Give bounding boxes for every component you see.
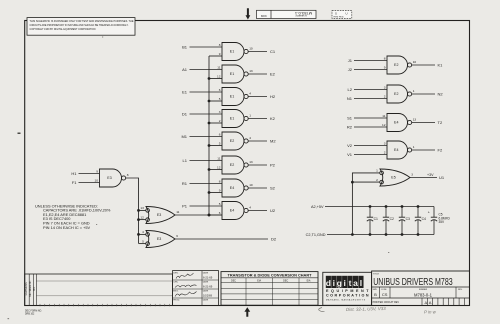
svg-text:4: 4 — [249, 136, 251, 140]
svg-text:PRINT PROD: PRINT PROD — [333, 16, 344, 18]
svg-text:4: 4 — [249, 206, 251, 210]
svg-text:DEC FORM NO.: DEC FORM NO. — [25, 310, 42, 312]
svg-text:A1: A1 — [182, 67, 188, 72]
svg-text:DRN.: DRN. — [173, 272, 179, 274]
svg-text:T2: T2 — [438, 120, 443, 125]
svg-text:M1: M1 — [181, 134, 187, 139]
svg-text:PIN 14 ON EACH IC = +5V: PIN 14 ON EACH IC = +5V — [43, 225, 91, 230]
svg-text:K1: K1 — [438, 62, 444, 67]
svg-text:EQUIPMENT: EQUIPMENT — [326, 289, 369, 293]
wire J2 input — [354, 69, 387, 71]
gate OR gate E3 upper — [146, 207, 175, 224]
svg-text:i: i — [333, 278, 335, 288]
junction C2 bottom — [385, 233, 388, 236]
svg-text:g: g — [337, 278, 342, 288]
wire to OR2 pin 4 — [139, 233, 146, 235]
top drawing number box — [257, 10, 317, 18]
svg-text:DATE: DATE — [203, 271, 209, 274]
svg-text:10: 10 — [95, 179, 99, 183]
svg-text:UNIBUS DRIVERS M783: UNIBUS DRIVERS M783 — [373, 277, 453, 288]
svg-text:E5: E5 — [391, 176, 395, 180]
capacitor C1 — [367, 207, 378, 235]
svg-text:SCHEMATIC: SCHEMATIC — [295, 14, 307, 17]
svg-text:CHK CHANGE NO.: CHK CHANGE NO. — [29, 280, 32, 297]
wire J1 input — [354, 60, 387, 62]
svg-text:U: U — [346, 12, 348, 16]
svg-text:E4: E4 — [394, 148, 398, 152]
svg-text:11: 11 — [217, 65, 220, 69]
svg-text:A: A — [429, 300, 432, 305]
svg-text:3: 3 — [219, 110, 221, 114]
svg-text:C1: C1 — [374, 217, 378, 221]
wire V1 input — [354, 154, 387, 156]
svg-text:E1: E1 — [230, 117, 234, 121]
wire output to K1 — [412, 64, 435, 66]
wire to OR1 pin 13 — [139, 209, 146, 211]
svg-text:NOM: NOM — [261, 14, 267, 17]
junction bus bottom — [208, 214, 211, 217]
svg-text:REV: REV — [34, 286, 36, 291]
svg-text:CHK.: CHK. — [173, 282, 178, 284]
wire bus to driver 3 — [209, 100, 222, 102]
svg-text:E3: E3 — [107, 176, 111, 180]
svg-text:1: 1 — [249, 114, 251, 118]
svg-text:C2: C2 — [390, 217, 394, 221]
svg-text:E3: E3 — [157, 213, 161, 217]
svg-text:J1: J1 — [348, 58, 353, 63]
svg-text:3: 3 — [384, 85, 386, 89]
svg-text:8: 8 — [219, 43, 221, 47]
svg-text:5: 5 — [219, 202, 221, 206]
revision strip — [25, 274, 173, 306]
capacitor C2 — [383, 207, 394, 235]
svg-text:H1: H1 — [71, 171, 77, 176]
wire output to N2 — [412, 93, 435, 95]
top revision status box — [332, 11, 352, 19]
svg-text:8: 8 — [384, 56, 386, 60]
wire +5V rail — [325, 206, 434, 208]
gate driver E1 #3 — [222, 88, 248, 106]
junction bus row 4 — [208, 122, 211, 125]
wire output to P2 — [248, 164, 267, 166]
svg-text:F1: F1 — [72, 180, 77, 185]
svg-text:L1: L1 — [183, 158, 188, 163]
svg-text:U2: U2 — [270, 208, 276, 213]
ruler ticks — [40, 304, 170, 306]
svg-text:1: 1 — [413, 89, 415, 93]
svg-text:DEC: DEC — [231, 279, 236, 282]
svg-text:9: 9 — [384, 66, 386, 70]
svg-text:A2,+5V: A2,+5V — [311, 205, 324, 209]
junction pin4 — [137, 233, 140, 236]
svg-text:11: 11 — [382, 114, 385, 118]
wire E1 input — [190, 91, 223, 93]
conversion chart — [221, 272, 318, 306]
svg-text:13: 13 — [413, 118, 417, 122]
capacitor C5 6.8MFD 35V — [428, 207, 451, 235]
wire output to T2 — [412, 122, 435, 124]
svg-text:10/2/69: 10/2/69 — [203, 293, 212, 297]
wire E3 pin8 net — [126, 178, 139, 243]
svg-text:13: 13 — [249, 69, 253, 73]
wire GND rail — [327, 234, 434, 236]
svg-text:11: 11 — [217, 156, 220, 160]
svg-text:DATE: DATE — [203, 281, 209, 284]
svg-text:R1: R1 — [182, 181, 188, 186]
svg-text:DRB 102: DRB 102 — [25, 314, 35, 316]
wire output to E2 — [248, 73, 267, 75]
svg-text:E4: E4 — [230, 186, 234, 190]
capacitor C3 — [399, 207, 410, 235]
svg-text:TITLE: TITLE — [373, 273, 379, 275]
svg-text:10: 10 — [249, 183, 253, 187]
svg-text:l: l — [360, 278, 362, 288]
gate driver E1 #4 — [222, 110, 248, 128]
svg-text:12: 12 — [140, 215, 144, 219]
svg-text:D1: D1 — [182, 111, 188, 116]
svg-text:THIS SCHEMATIC IS FURNISHED ON: THIS SCHEMATIC IS FURNISHED ONLY FOR TES… — [30, 19, 134, 23]
svg-text:Dist. 32-1, U3V, V33: Dist. 32-1, U3V, V33 — [346, 306, 386, 312]
svg-text:H2: H2 — [270, 94, 276, 99]
svg-text:9: 9 — [219, 189, 221, 193]
junction pin12 — [137, 218, 140, 221]
svg-text:M783-0-1: M783-0-1 — [414, 293, 432, 298]
gate E5 +3V source gate — [380, 169, 410, 186]
wire P1 input — [190, 205, 223, 207]
wire V2 input — [354, 145, 387, 147]
junction bus row 3 — [208, 100, 211, 103]
svg-text:DATE: DATE — [203, 299, 209, 302]
svg-text:M2: M2 — [270, 138, 276, 143]
svg-text:REV.: REV. — [458, 289, 463, 291]
svg-text:E2: E2 — [394, 63, 398, 67]
junction C3 top — [401, 205, 404, 208]
gate driver E2 #6 — [222, 156, 248, 174]
svg-text:P in w: P in w — [424, 310, 437, 315]
svg-text:E3: E3 — [157, 237, 161, 241]
wire S1 input — [354, 117, 387, 119]
svg-text:5: 5 — [219, 142, 221, 146]
svg-text:E4: E4 — [394, 121, 398, 125]
svg-text:P2: P2 — [270, 162, 276, 167]
svg-text:J2: J2 — [348, 67, 353, 72]
signature block — [173, 271, 219, 306]
svg-text:11: 11 — [176, 210, 179, 214]
capacitor C4 — [415, 207, 426, 235]
svg-text:6: 6 — [219, 211, 221, 215]
wire enable bus vertical — [208, 56, 210, 215]
svg-text:6-21-69: 6-21-69 — [203, 284, 213, 288]
svg-text:4: 4 — [142, 230, 144, 234]
svg-text:E2: E2 — [394, 92, 398, 96]
wire E5 pin2 — [352, 181, 379, 183]
junction pin13 — [137, 209, 140, 212]
svg-text:COPYRIGHT 1969 BY DIGITAL EQUI: COPYRIGHT 1969 BY DIGITAL EQUIPMENT CORP… — [30, 27, 96, 31]
wire A1 input — [190, 69, 223, 71]
svg-text:V1: V1 — [347, 152, 353, 157]
wire bus to driver 2 — [209, 78, 222, 80]
svg-text:E2: E2 — [230, 139, 234, 143]
wire R2 input — [354, 126, 387, 128]
pencil handwriting — [319, 306, 437, 315]
svg-text:12: 12 — [382, 123, 386, 127]
svg-text:9: 9 — [96, 169, 98, 173]
svg-text:MAYNARD, MASSACHUSETTS: MAYNARD, MASSACHUSETTS — [326, 299, 366, 302]
svg-text:1: 1 — [413, 145, 415, 149]
junction at GND rail — [351, 233, 354, 236]
svg-text:S1: S1 — [347, 115, 353, 120]
left margin mark — [18, 133, 21, 134]
gate driver E2 #5 — [222, 132, 248, 150]
wire bus to driver 8 — [209, 214, 222, 216]
svg-text:ENG.: ENG. — [173, 291, 179, 293]
svg-text:CODE: CODE — [381, 289, 387, 291]
junction C1 bottom — [369, 233, 372, 236]
svg-text:B1: B1 — [182, 44, 188, 49]
svg-text:C4: C4 — [422, 217, 426, 221]
svg-text:SIZE: SIZE — [373, 289, 378, 291]
svg-text:8: 8 — [127, 173, 129, 177]
junction C3 bottom — [401, 233, 404, 236]
junction C4 top — [417, 205, 420, 208]
svg-text:EIA: EIA — [257, 279, 261, 282]
title block — [372, 271, 470, 306]
top centering arrow — [246, 8, 251, 19]
gate E3 enable NAND — [100, 169, 126, 187]
svg-text:S2: S2 — [270, 185, 276, 190]
wire L1 input — [190, 160, 223, 162]
wire N1 input — [354, 98, 387, 100]
svg-text:P1: P1 — [182, 203, 188, 208]
svg-text:E1: E1 — [230, 95, 234, 99]
svg-text:CORPORATION: CORPORATION — [326, 293, 369, 297]
svg-text:EIA: EIA — [307, 279, 311, 282]
wire E5 inputs to GND — [352, 173, 379, 235]
junction E5 inputs — [351, 181, 354, 184]
gate driver E1 #1 — [222, 43, 248, 61]
wire H1 input — [79, 173, 100, 175]
svg-text:K2: K2 — [270, 116, 276, 121]
junction bus row 2 — [208, 77, 211, 80]
wire L2 input — [354, 89, 387, 91]
svg-text:C1: C1 — [270, 49, 276, 54]
svg-text:PRINTED CIRCUIT REV: PRINTED CIRCUIT REV — [373, 301, 400, 304]
svg-text:E4: E4 — [230, 209, 234, 213]
svg-text:E1: E1 — [230, 50, 234, 54]
svg-text:CS: CS — [382, 292, 388, 297]
svg-text:+: + — [428, 211, 430, 215]
digital logo block — [323, 272, 372, 305]
wire bus to driver 4 — [209, 122, 222, 124]
svg-text:9: 9 — [219, 52, 221, 56]
wire output to K2 — [248, 118, 267, 120]
svg-text:NUMBER: NUMBER — [419, 289, 428, 291]
svg-text:3: 3 — [411, 173, 413, 177]
svg-text:12: 12 — [217, 166, 221, 170]
gate driver E4 #7 — [222, 179, 248, 197]
svg-text:6: 6 — [176, 234, 178, 238]
svg-text:35V: 35V — [439, 220, 446, 224]
junction C1 top — [369, 205, 372, 208]
svg-text:DATE: DATE — [203, 290, 209, 293]
svg-text:CIRCUITS ARE PROPRIETARY IN NA: CIRCUITS ARE PROPRIETARY IN NATURE AND S… — [30, 23, 129, 27]
wire output to M2 — [248, 140, 267, 142]
svg-text:E1: E1 — [182, 89, 188, 94]
wire output to S2 — [248, 187, 267, 189]
svg-text:4: 4 — [249, 92, 251, 96]
svg-text:B: B — [374, 292, 377, 297]
svg-text:d: d — [326, 278, 331, 288]
wire output to C1 — [248, 51, 267, 53]
svg-text:12: 12 — [217, 75, 221, 79]
svg-text:E1: E1 — [230, 72, 234, 76]
svg-text:REVISIONS: REVISIONS — [25, 282, 28, 295]
wire R1 input — [190, 183, 223, 185]
svg-text:E2: E2 — [230, 163, 234, 167]
svg-text:C2,T1,GND: C2,T1,GND — [306, 233, 326, 237]
wire to OR1 pin 12 — [139, 219, 146, 221]
svg-text:6-21-69: 6-21-69 — [203, 276, 213, 280]
svg-text:V2: V2 — [347, 143, 353, 148]
junction bus row 6 — [208, 168, 211, 171]
svg-text:3: 3 — [384, 141, 386, 145]
wire output to F2 — [412, 149, 435, 151]
svg-text:R2: R2 — [347, 124, 353, 129]
svg-text:N1: N1 — [347, 96, 353, 101]
gate driver E4 right #4 — [387, 141, 412, 159]
svg-text:10: 10 — [413, 60, 417, 64]
svg-text:5: 5 — [219, 97, 221, 101]
svg-text:PROD.: PROD. — [173, 300, 180, 302]
junction C2 top — [385, 205, 388, 208]
scan specks — [8, 37, 390, 320]
wire output to H2 — [248, 96, 267, 98]
junction C4 bottom — [417, 233, 420, 236]
proprietary notice box — [27, 18, 135, 36]
svg-text:N2: N2 — [438, 91, 444, 96]
svg-text:6: 6 — [219, 88, 221, 92]
svg-text:TRANSISTOR & DIODE CONVERSION: TRANSISTOR & DIODE CONVERSION CHART — [228, 274, 313, 278]
wire output to U2 — [248, 210, 267, 212]
svg-text:2: 2 — [376, 178, 378, 182]
gate driver E2 right #2 — [387, 85, 412, 103]
junction bus row 8 — [208, 214, 211, 217]
svg-text:+3V: +3V — [427, 173, 434, 177]
gate driver E2 right #1 — [387, 56, 412, 74]
gate driver E4 right #3 — [387, 114, 412, 132]
gate OR gate E3 lower — [146, 231, 175, 248]
junction bus row 7 — [208, 191, 211, 194]
svg-text:13: 13 — [140, 206, 144, 210]
wire bus to pin 9 — [209, 55, 222, 57]
wire to OR2 pin 5 — [139, 243, 146, 245]
svg-text:6: 6 — [219, 132, 221, 136]
wire bus to driver 6 — [209, 169, 222, 171]
svg-text:F2: F2 — [438, 147, 443, 152]
svg-text:t: t — [349, 278, 352, 288]
svg-text:8: 8 — [219, 179, 221, 183]
wire OR2 out to D2 — [175, 238, 268, 240]
wire F1 input — [79, 182, 100, 184]
drawing frame border — [25, 21, 470, 306]
svg-text:DEC: DEC — [283, 279, 288, 282]
svg-text:i: i — [343, 278, 345, 288]
wire D1 input — [190, 113, 223, 115]
svg-text:S: S — [335, 12, 337, 16]
notes text — [35, 203, 111, 230]
svg-text:a: a — [353, 278, 358, 288]
bottom centering arrow — [244, 307, 250, 317]
wire bus to driver 5 — [209, 145, 222, 147]
svg-text:1: 1 — [376, 168, 378, 172]
junction bus row 5 — [208, 144, 211, 147]
wire B1 input — [190, 46, 223, 48]
gate driver E4 #8 — [222, 202, 248, 220]
svg-text:13: 13 — [249, 160, 253, 164]
wire bus to driver 7 — [209, 192, 222, 194]
svg-text:L2: L2 — [348, 87, 353, 92]
svg-text:E2: E2 — [270, 71, 276, 76]
svg-text:U1: U1 — [439, 175, 445, 180]
svg-text:10: 10 — [249, 47, 253, 51]
svg-text:D2: D2 — [271, 236, 277, 241]
svg-text:5: 5 — [142, 239, 144, 243]
wire +3V output — [410, 177, 437, 179]
svg-text:2: 2 — [384, 151, 386, 155]
wire M1 input — [190, 136, 223, 138]
svg-text:C3: C3 — [406, 217, 410, 221]
svg-text:2: 2 — [384, 95, 386, 99]
wire OR1 out to bus — [175, 214, 222, 216]
gate driver E1 #2 — [222, 65, 248, 83]
svg-text:2: 2 — [219, 119, 221, 123]
